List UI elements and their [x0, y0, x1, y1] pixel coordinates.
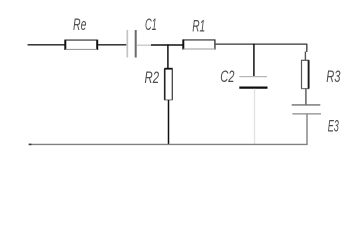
- svg-text:C2: C2: [220, 68, 234, 86]
- wire: R2 bottom lead to bottom rail: [168, 100, 170, 145]
- wire: R3 bottom lead to E3: [305, 89, 307, 105]
- wire: C1 to node (light segment): [137, 44, 151, 46]
- svg-text:E3: E3: [328, 117, 340, 135]
- resistor R2 (vertical): [164, 69, 172, 100]
- capacitor C2 top plate: [239, 76, 267, 78]
- capacitor C2 bottom plate: [239, 86, 267, 88]
- wire: input top-left to Re: [28, 44, 66, 46]
- node A: junction to R2: [167, 44, 169, 69]
- svg-text:C1: C1: [145, 16, 157, 34]
- resistor Re: [65, 40, 97, 50]
- resistor R1: [183, 39, 215, 49]
- svg-text:Re: Re: [73, 16, 86, 34]
- svg-text:R3: R3: [326, 68, 341, 86]
- wire: E3 bottom lead down to rail corner: [29, 114, 307, 144]
- node B: junction to C2: [253, 44, 255, 77]
- wire: bottom rail left tip (darker): [29, 143, 32, 145]
- capacitor E3 bottom plate: [292, 113, 321, 115]
- wire: node segment to R1: [151, 44, 184, 46]
- svg-text:R1: R1: [192, 17, 205, 35]
- capacitor C1 left plate: [126, 30, 128, 58]
- wire: R3 top lead: [304, 52, 306, 61]
- wire: Re to C1: [98, 44, 126, 46]
- wire: corner down to R3: [306, 44, 308, 52]
- capacitor C1 right plate: [135, 30, 137, 58]
- svg-text:R2: R2: [145, 69, 160, 87]
- capacitor E3 top plate: [292, 104, 321, 106]
- resistor R3 (vertical): [301, 60, 309, 88]
- wire: C2 bottom lead (faint): [254, 89, 256, 144]
- wire: R1 to top-right corner: [216, 43, 308, 45]
